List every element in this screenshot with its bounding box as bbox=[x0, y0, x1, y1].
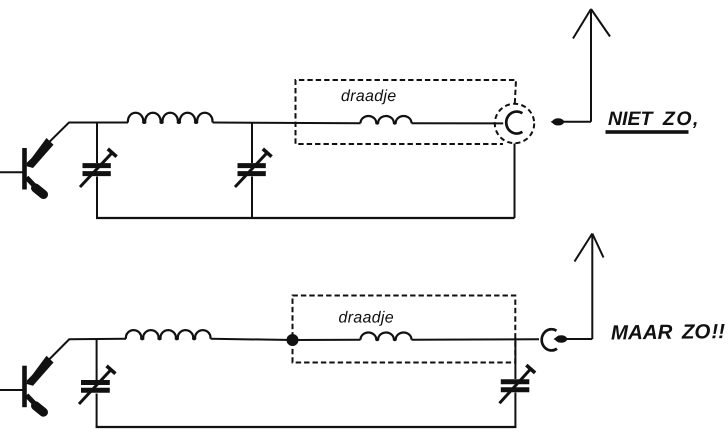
transistor Q1 bbox=[0, 123, 69, 195]
underline of "NIET ZO," bbox=[606, 130, 689, 134]
variable capacitor C3 bbox=[79, 366, 115, 404]
variable capacitor C4 bbox=[500, 365, 536, 403]
antenna (top) bbox=[573, 9, 610, 122]
emitter lead (thin) bbox=[27, 123, 69, 165]
emitter arrow bbox=[26, 356, 54, 386]
wire: blob to antenna bbox=[563, 121, 591, 123]
antenna plug blob (bottom) bbox=[554, 335, 568, 343]
base lead wire bbox=[0, 171, 23, 173]
connector socket (C shape, bottom) bbox=[542, 329, 557, 350]
wire: vertical branch of C3 bbox=[96, 340, 98, 381]
base lead wire bbox=[0, 389, 23, 391]
base bar bbox=[22, 366, 27, 408]
wire: connector down to bottom return bbox=[514, 144, 516, 219]
wire: vertical branch of C2 bbox=[251, 123, 253, 164]
wire: small coil to connector (bottom) bbox=[412, 338, 540, 340]
wire: vertical branch of C1 bbox=[96, 123, 98, 164]
collector blob bbox=[36, 188, 44, 195]
wire: junction to small coil (bottom) bbox=[293, 339, 361, 341]
wire: small coil to connector bbox=[412, 122, 504, 124]
node junction dot bbox=[287, 334, 299, 346]
dashed circle around connector bbox=[495, 104, 534, 143]
wire: blob to antenna (bottom) bbox=[566, 338, 592, 340]
emitter arrow (points to base, PNP) bbox=[26, 138, 54, 168]
label "draadje" (bottom) bbox=[339, 311, 393, 326]
connector socket (C shape, top) bbox=[506, 112, 522, 134]
wire: vertical branch of C4 bbox=[514, 339, 516, 379]
label "draadje" (top) bbox=[342, 89, 396, 104]
collector lead (thick) bbox=[27, 395, 38, 406]
wire: emitter to coil (bottom) bbox=[69, 338, 127, 341]
text "MAAR ZO !!" bbox=[611, 324, 725, 340]
inductor L4 (draadje coil, bottom) bbox=[361, 333, 412, 341]
antenna plug blob (top) bbox=[551, 118, 564, 125]
inductor L2 (draadje coil, top) bbox=[361, 116, 412, 124]
variable capacitor C1 bbox=[80, 149, 117, 187]
collector lead (thick) bbox=[27, 178, 38, 189]
wire: coil to dashed box / small coil bbox=[213, 122, 361, 125]
collector blob bbox=[36, 406, 44, 413]
text "NIET ZO," bbox=[608, 111, 696, 128]
antenna (bottom) bbox=[575, 234, 604, 340]
wire: coil to junction (bottom) bbox=[211, 339, 293, 340]
variable capacitor C2 bbox=[235, 149, 272, 187]
dashed enclosure (draadje box, top) bbox=[296, 80, 517, 144]
wire: bottom return of bottom circuit bbox=[96, 426, 517, 428]
transistor Q2 bbox=[0, 340, 69, 413]
base bar bbox=[22, 148, 27, 190]
emitter lead (thin) bbox=[27, 340, 69, 382]
inductor L3 (bottom) bbox=[126, 330, 211, 339]
dashed enclosure (draadje box, bottom) bbox=[293, 296, 516, 363]
inductor L1 bbox=[128, 113, 213, 123]
wire: bottom return of top circuit bbox=[96, 217, 515, 219]
wire: emitter to coil bbox=[69, 122, 129, 124]
